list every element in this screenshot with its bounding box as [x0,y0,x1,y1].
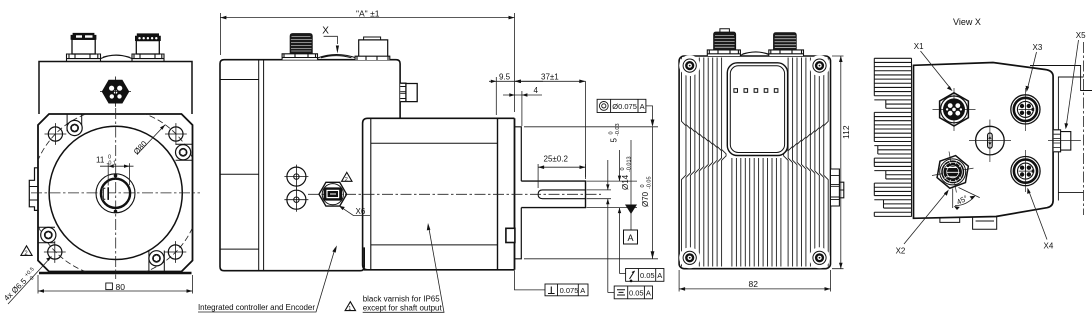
motor front face line [497,118,499,269]
motor body boundary [370,118,372,269]
LED windows [734,89,778,93]
svg-text:except for shaft output: except for shaft output [363,304,443,313]
svg-text:1: 1 [348,306,351,312]
upper body [39,62,192,115]
svg-text:0.05: 0.05 [640,271,655,280]
dim 82 [679,270,830,292]
X4 connector [1011,150,1040,192]
flange square with chamfered corners [38,114,193,272]
connector M12 left body [72,39,95,54]
center element [969,120,1011,163]
dim A+-1 [220,13,514,112]
top hump between connectors [101,55,133,59]
flange plate face (double) [514,118,516,269]
connector M12 left (front view) base [67,54,101,62]
rear cover steps [220,80,259,250]
dim 11 [100,163,134,185]
centerline vertical [115,108,117,279]
svg-text:80: 80 [116,282,126,292]
svg-text:0.075: 0.075 [560,286,579,295]
svg-text:Ø70: Ø70 [641,191,650,207]
central panel [727,63,787,156]
svg-text:black varnish for IP65: black varnish for IP65 [363,295,441,304]
svg-text:"A" ±1: "A" ±1 [356,9,380,19]
svg-text:5: 5 [610,138,619,143]
svg-text:0: 0 [609,131,615,136]
connector M12 right body [136,41,159,54]
flange bottom thick edge [39,272,192,275]
shaft face dots [114,174,118,178]
svg-text:A: A [657,271,662,280]
svg-text:Ø0.075: Ø0.075 [612,102,637,111]
left edge connector bump (front view) [29,168,38,211]
svg-text:37±1: 37±1 [541,73,559,82]
bottom tabs [940,217,997,230]
main pilot circle [49,126,182,259]
svg-text:X: X [322,26,329,37]
connector knurled (side view) [290,34,312,54]
dia70 extension lines [524,127,658,259]
svg-text:A: A [646,289,651,298]
X2 connector [932,152,974,193]
corner screws [683,59,826,264]
screw clearance circles [679,55,830,268]
screw TR with notch [176,144,193,160]
dim 25+-0.2 [538,164,585,188]
svg-text:11: 11 [96,156,105,165]
shaft circle (thick) [101,179,130,208]
small square on flange [506,228,515,242]
warning triangle 2 (X6) [342,172,352,182]
4x dia6.5 label (rotated) [2,267,40,305]
svg-text:0: 0 [620,167,626,172]
dim 37+-1 [515,81,586,177]
svg-text:A: A [640,102,645,111]
cable gland hex nut top center [100,77,131,107]
shaft center: outer circle [96,174,135,213]
motor section outline [363,118,515,269]
mounting hole BL [44,241,66,263]
dim 9.5 [489,77,543,115]
svg-text:X6: X6 [356,207,366,216]
X6 screws (two circles) [284,165,308,189]
connector face outline [914,63,1054,219]
screw BR with notch [149,251,164,272]
connector right base [355,56,390,60]
keyway width 5 dim [587,160,612,293]
warning triangle 1 (varnish) [345,302,355,312]
svg-text:-0.013: -0.013 [627,156,633,172]
svg-text:X2: X2 [896,247,906,256]
centerline horizontal [31,192,200,194]
shaft centerline [308,193,601,195]
svg-text:Integrated controller and Enco: Integrated controller and Encoder [198,303,315,312]
body outline [679,56,830,269]
45 deg note [953,188,980,211]
mounting hole BR [165,241,187,263]
4x dia 6.5 leader [8,257,52,305]
connector M12 right base [132,54,164,62]
motor corner bands [371,143,498,245]
keyway slot [538,190,585,199]
right centerline [1083,42,1085,215]
svg-text:2: 2 [345,177,348,183]
mounting hole TR [165,123,187,145]
fins [682,58,829,267]
dim 112 [832,56,844,269]
svg-text:0.05: 0.05 [629,289,644,298]
svg-text:4: 4 [534,86,539,95]
X6 connector hexagon [319,182,347,206]
screw BL with notch [39,227,56,242]
svg-text:X3: X3 [1033,43,1043,52]
pilot boss dia70 [515,127,522,259]
svg-text:82: 82 [749,279,759,289]
background edges right [1030,66,1092,201]
dia 80 radial arrow [137,125,165,155]
svg-text:Ø14: Ø14 [621,174,630,190]
dia70 label [640,176,653,207]
bolt circle (dashed) [31,109,200,278]
controller housing outline [220,60,400,271]
rear cover joint lines [259,60,264,271]
dim square-80 [38,275,193,294]
square-80 text [106,283,113,290]
top hump (side view) [318,55,357,60]
svg-text:X1: X1 [914,42,924,51]
concentricity frame [597,99,654,127]
connector left (rear view) [707,50,740,56]
connector M12 right knurled cap [135,34,160,41]
svg-text:112: 112 [841,125,851,139]
connector right (side view, outline style) [359,40,388,58]
connector right (rear view) [769,50,804,56]
hump (rear view) [740,52,770,55]
X5 connector (View X) [1054,130,1071,152]
svg-text:25±0.2: 25±0.2 [544,155,569,164]
X6 label [341,207,371,216]
heatsink bars [874,58,911,217]
dim 4 [503,91,542,126]
warning triangle 2 (front) [21,246,32,257]
connector base left (side view) [282,54,317,60]
dia14 dim [587,150,638,274]
X3 connector [1011,88,1040,131]
screw TL with notch [67,115,82,136]
symmetry frame [608,286,653,299]
X1 connector [933,88,976,131]
svg-text:A: A [628,233,634,243]
keyway [103,188,109,200]
svg-text:X5: X5 [1076,31,1086,40]
datum A [630,140,632,230]
svg-text:A: A [580,286,585,295]
svg-text:-0.03: -0.03 [615,123,621,136]
X5 connector (edge view) [831,169,844,206]
connector M12 left dark cap [71,33,96,39]
svg-text:0: 0 [640,184,646,189]
runout frame [620,269,664,283]
X5 connector side bump on controller face [400,83,417,101]
svg-text:-0.1: -0.1 [107,161,116,167]
svg-text:-0.05: -0.05 [647,176,653,189]
mounting hole TL [45,123,67,145]
perpendicularity frame [515,271,589,296]
svg-text:9.5: 9.5 [499,73,511,82]
svg-text:X4: X4 [1044,242,1054,251]
svg-text:View X: View X [953,17,981,27]
shaft [521,181,585,208]
